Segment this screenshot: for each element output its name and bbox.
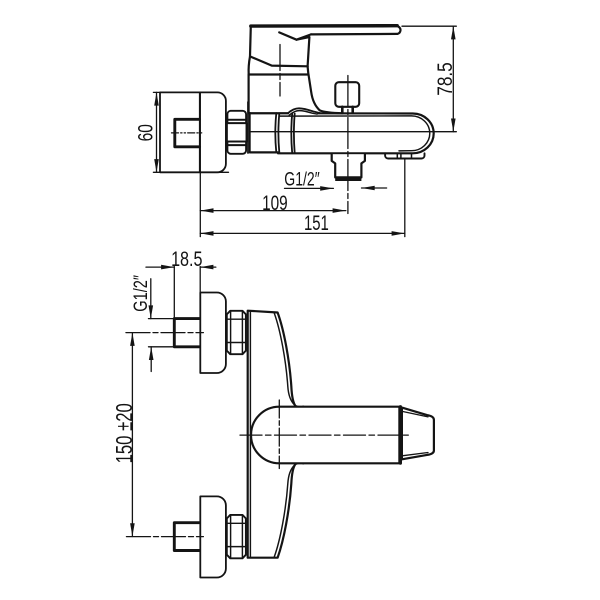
dome cap under base xyxy=(249,56,250,74)
bottom hex nut xyxy=(227,515,246,558)
handle axis centerline xyxy=(279,45,281,97)
svg-text:G1/2″: G1/2″ xyxy=(129,275,152,312)
wall plate face line xyxy=(199,92,201,172)
wall plate (escutcheon, side view) xyxy=(160,92,226,172)
top hex nut xyxy=(227,311,246,354)
svg-text:G1/2″: G1/2″ xyxy=(284,168,319,190)
body inner flare lines xyxy=(274,313,303,407)
inlet boss outline xyxy=(250,113,288,152)
dimension 18.5 xyxy=(146,267,216,320)
top inlet pipe (thick square) xyxy=(174,319,200,347)
dimension 150 ± 20 xyxy=(131,333,133,537)
body seam line xyxy=(250,131,456,133)
top pipe centerline xyxy=(126,332,203,334)
inlet pipe behind plate (thick square) xyxy=(175,119,200,147)
svg-text:150 ±20: 150 ±20 xyxy=(112,403,137,463)
handle base edges xyxy=(250,26,308,66)
wall bracket under spout xyxy=(385,153,424,158)
outlet centerline (vertical dash-dot) xyxy=(347,76,349,214)
svg-text:18.5: 18.5 xyxy=(171,247,202,271)
lever notch xyxy=(279,32,311,39)
body inner left line xyxy=(249,311,251,558)
lever thick top edge xyxy=(251,24,397,28)
grip xyxy=(402,408,434,460)
hex nut on wall connection xyxy=(227,111,247,154)
handle capsule (top view) xyxy=(251,407,399,464)
bottom pipe centerline xyxy=(127,536,204,538)
svg-text:78.5: 78.5 xyxy=(435,62,458,96)
body (top view) xyxy=(248,311,296,558)
svg-text:109: 109 xyxy=(262,191,288,215)
knob neck xyxy=(342,107,352,113)
svg-text:60: 60 xyxy=(133,124,157,141)
lever handle silhouette (white fill) xyxy=(250,26,401,67)
svg-text:151: 151 xyxy=(304,212,329,235)
dimension 109 xyxy=(199,92,201,236)
bottom escutcheon xyxy=(200,496,226,577)
capsule right end thick line xyxy=(399,407,402,463)
body inlet washer (double vertical line) xyxy=(247,102,249,153)
outlet thread (dark band) xyxy=(335,177,361,181)
check valve hump on body top (double line) xyxy=(288,108,320,113)
lever tip xyxy=(311,26,401,35)
bottom inlet pipe (thick square) xyxy=(174,523,200,551)
pipe centerline with dots xyxy=(172,132,203,134)
spout inner top line xyxy=(280,116,430,151)
housing right edge curving into spout top xyxy=(309,75,343,114)
dimension 78.5 xyxy=(402,26,456,132)
cartridge housing xyxy=(249,75,309,114)
shower outlet collar xyxy=(332,154,365,177)
diverter knob xyxy=(335,82,359,107)
crosshair centerlines xyxy=(240,434,408,436)
dimension 60 xyxy=(153,92,228,172)
spout outline xyxy=(278,113,434,153)
top escutcheon xyxy=(200,293,226,374)
boss end double arcs (collar) xyxy=(275,113,279,152)
dimension 151 xyxy=(404,159,406,237)
